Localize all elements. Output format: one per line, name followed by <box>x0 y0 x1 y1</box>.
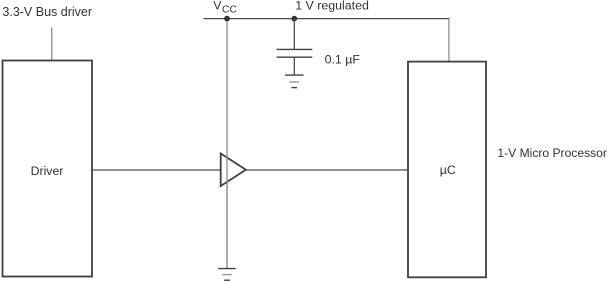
svg-text:Driver: Driver <box>31 164 64 178</box>
block U3 uC (microprocessor) <box>408 62 486 278</box>
wire VCC vertical crossing buffer <box>226 154 228 268</box>
buffer U2 (level translator) <box>221 154 246 187</box>
wire from rail to capacitor <box>293 19 295 49</box>
wire from Driver output to buffer input <box>92 169 221 171</box>
wire from capacitor to ground <box>293 57 295 75</box>
svg-text:CC: CC <box>222 5 237 16</box>
svg-text:1 V regulated: 1 V regulated <box>295 0 369 13</box>
svg-text:1-V Micro Processor: 1-V Micro Processor <box>497 146 607 160</box>
node junction on rail at capacitor <box>291 16 297 22</box>
wire VCC vertical through buffer to ground <box>226 19 228 269</box>
capacitor C1 0.1 uF <box>277 48 313 50</box>
wire from buffer output to uC <box>246 169 408 171</box>
node junction on rail at buffer supply <box>224 16 230 22</box>
svg-text:3.3-V Bus driver: 3.3-V Bus driver <box>2 5 92 19</box>
svg-text:V: V <box>213 0 222 13</box>
wire VCC drop to uC box <box>448 19 450 62</box>
svg-text:µC: µC <box>440 163 456 177</box>
ground (capacitor) <box>285 75 304 88</box>
block U1 Driver (3.3-V bus driver) <box>3 61 93 277</box>
wire VCC rail <box>204 18 450 20</box>
ground (buffer supply) <box>218 269 236 281</box>
svg-text:0.1 µF: 0.1 µF <box>325 52 361 66</box>
wire leader from label to Driver box <box>51 27 53 60</box>
